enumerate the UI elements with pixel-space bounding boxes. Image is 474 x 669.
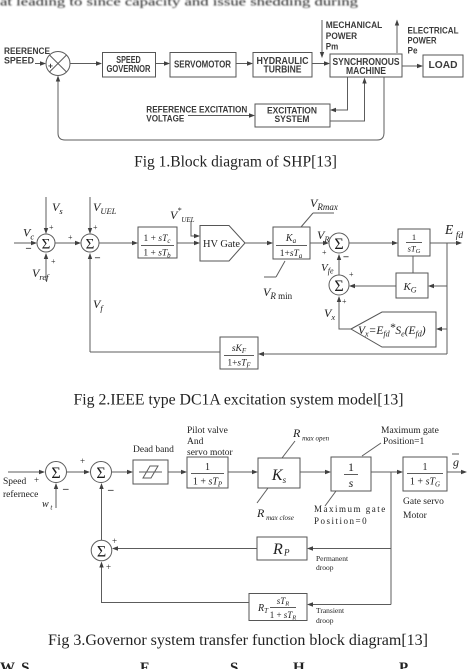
svg-text:1 + sTc: 1 + sTc: [144, 234, 172, 245]
svg-text:Fig 3.Governor system transfer: Fig 3.Governor system transfer function …: [48, 632, 428, 649]
svg-text:1: 1: [412, 232, 416, 242]
limit mark Rmax close: [257, 488, 268, 503]
summing junction S2c: [329, 233, 350, 263]
box RP permanent droop: [257, 537, 307, 560]
svg-text:Gate servo: Gate servo: [403, 497, 444, 507]
wire to Rt box: [307, 602, 391, 606]
box Ks: [258, 458, 300, 488]
svg-text:Σ: Σ: [334, 236, 343, 253]
svg-text:Transient: Transient: [316, 606, 345, 615]
wire mechanical power arrow: [320, 20, 324, 58]
wire integrator to gate servo: [371, 470, 403, 474]
svg-text:Pm: Pm: [326, 42, 339, 52]
label Vx: [324, 306, 335, 322]
wire reference excitation input: [188, 113, 255, 117]
box HYDRAULIC TURBINE: [253, 53, 312, 78]
wire gate servo output: [447, 470, 467, 474]
HV gate: [200, 226, 245, 262]
summing junction S3c: [91, 540, 112, 572]
svg-text:R max open: R max open: [292, 426, 330, 443]
svg-text:SERVOMOTOR: SERVOMOTOR: [174, 60, 232, 71]
label Vfe: [321, 262, 334, 276]
box KG: [396, 273, 428, 298]
svg-text:Maximum gate: Maximum gate: [381, 426, 439, 436]
wire Vref input: [44, 253, 56, 281]
svg-text:VUEL: VUEL: [93, 200, 117, 216]
svg-text:at leading to since capacity a: at leading to since capacity and issue s…: [0, 0, 358, 9]
wire S2b to lead-lag: [99, 241, 138, 245]
svg-text:Vc: Vc: [23, 226, 34, 242]
svg-text:+: +: [48, 61, 53, 71]
wire Vx up into S2d: [337, 296, 351, 329]
caption Fig 1: [134, 154, 337, 171]
svg-text:Motor: Motor: [403, 511, 428, 521]
svg-text:+: +: [80, 456, 85, 466]
wire to RP box: [307, 546, 391, 550]
svg-text:+: +: [93, 223, 98, 232]
wire S2a to S2b: [55, 233, 81, 245]
label Vs: [52, 200, 63, 216]
svg-text:droop: droop: [316, 563, 334, 572]
wire S3b to dead band: [112, 470, 133, 474]
svg-text:POWER: POWER: [326, 31, 358, 41]
summing junction S3b: [91, 462, 115, 497]
svg-text:Vs: Vs: [52, 200, 63, 216]
wire KG to S2d: [349, 270, 396, 288]
svg-text:Fig 2.IEEE type DC1A excitatio: Fig 2.IEEE type DC1A excitation system m…: [74, 392, 404, 409]
svg-text:Pilot valve: Pilot valve: [187, 426, 228, 436]
box SYNCHRONOUS MACHINE: [330, 54, 402, 77]
wire Efd to saturation block: [436, 327, 447, 331]
VRmax limit mark: [301, 213, 334, 227]
limit mark max gate open: [362, 443, 381, 456]
svg-text:R max close: R max close: [256, 506, 294, 522]
box dead band: [133, 460, 168, 484]
wire HV gate to Ka: [245, 241, 273, 245]
summing junction S1: [46, 52, 70, 76]
box SPEED GOVERNOR: [103, 53, 156, 78]
label VRmin: [263, 285, 293, 301]
wire Vs input: [44, 197, 54, 234]
svg-text:ELECTRICAL: ELECTRICAL: [408, 26, 459, 36]
truncated bottom text line: [0, 660, 408, 669]
wire droop feedback vertical: [390, 472, 392, 605]
label Vref: [32, 266, 50, 282]
wire S1 to speed governor: [70, 61, 102, 65]
wire dead band to pilot valve: [168, 470, 187, 474]
wire electrical power arrow: [395, 20, 399, 54]
box integrator 1/s: [331, 457, 371, 491]
svg-text:+: +: [322, 248, 327, 257]
svg-text:+: +: [106, 562, 111, 572]
label Rmax close: [256, 506, 294, 522]
wire pilot valve to Ks: [228, 470, 258, 474]
label Gate servo Motor: [403, 497, 444, 521]
box Rt transient droop: [249, 594, 307, 622]
wire reference speed input: [35, 61, 46, 65]
wire Efd feedback vertical: [446, 243, 448, 354]
wire Efd output: [430, 241, 462, 245]
box SERVOMOTOR: [170, 53, 236, 78]
svg-text:TURBINE: TURBINE: [264, 65, 302, 76]
svg-text:Vf: Vf: [93, 297, 104, 313]
label Maximum gate Position=1: [381, 426, 439, 447]
box EXCITATION SYSTEM: [255, 104, 330, 127]
label Permanent droop: [316, 554, 349, 572]
svg-text:Σ: Σ: [51, 465, 60, 482]
wire RP to S3c: [112, 536, 257, 551]
svg-text:+: +: [342, 297, 347, 306]
svg-text:s: s: [349, 476, 354, 490]
label Vc: [23, 226, 34, 242]
wire S2d to S2c: [337, 254, 341, 275]
svg-text:LOAD: LOAD: [429, 60, 458, 71]
svg-text:1: 1: [423, 462, 428, 473]
svg-text:refernece: refernece: [3, 489, 38, 500]
wire Ka to S2c with VR label: [310, 228, 330, 257]
label REFERENCE EXCITATION VOLTAGE: [146, 104, 247, 123]
svg-text:MECHANICAL: MECHANICAL: [326, 20, 383, 30]
label VUEL: [93, 200, 117, 216]
wire Efd to KG: [428, 284, 447, 288]
wire excitation system to machine: [330, 78, 367, 122]
svg-text:SYSTEM: SYSTEM: [275, 114, 310, 124]
svg-text:–: –: [343, 252, 350, 263]
wire machine to load: [402, 64, 423, 68]
wire wt input: [54, 483, 58, 508]
label VRmax: [310, 196, 338, 212]
wire VUEL input: [88, 197, 98, 234]
svg-text:And: And: [187, 437, 204, 447]
svg-text:1: 1: [205, 462, 210, 473]
wire Rt to S3c: [99, 562, 249, 603]
wire turbine to machine: [312, 61, 330, 65]
label wt: [42, 499, 53, 512]
svg-text:+: +: [51, 257, 56, 266]
svg-text:Σ: Σ: [42, 237, 51, 253]
svg-text:Position=0: Position=0: [314, 516, 368, 526]
label Rmax open: [292, 426, 330, 443]
svg-text:Vref: Vref: [32, 266, 50, 282]
wire servomotor to turbine: [236, 61, 253, 65]
svg-text:+: +: [349, 270, 354, 279]
box pilot valve 1/(1+sTP): [187, 457, 228, 489]
label Transient droop: [316, 606, 345, 625]
svg-text:GOVERNOR: GOVERNOR: [107, 64, 152, 75]
label MECHANICAL POWER Pm: [326, 20, 383, 51]
svg-text:–: –: [94, 253, 101, 264]
saturation polygon Vx=Efd*Se(Efd): [351, 312, 436, 347]
svg-text:w t: w t: [42, 499, 53, 512]
svg-text:SPEED: SPEED: [4, 56, 34, 67]
svg-text:Dead band: Dead band: [133, 445, 174, 455]
wire S2c to 1/sTG: [349, 241, 398, 245]
caption Fig 3: [48, 632, 428, 649]
VRmin limit mark: [264, 261, 285, 277]
svg-text:Σ: Σ: [97, 544, 106, 561]
wire S3a to S3b: [67, 456, 90, 474]
wire Vc input: [14, 241, 37, 254]
svg-text:POWER: POWER: [408, 36, 437, 46]
svg-text:Σ: Σ: [334, 278, 343, 295]
svg-text:MACHINE: MACHINE: [346, 66, 386, 77]
wire droop feedback up into S3b: [99, 483, 103, 540]
svg-text:Σ: Σ: [96, 465, 105, 482]
svg-text:–: –: [62, 483, 69, 495]
svg-text:VR: VR: [317, 228, 330, 244]
label Speed refernece: [3, 477, 38, 500]
limit mark Rmax open: [282, 441, 295, 458]
limit mark max gate close: [325, 491, 336, 506]
svg-text:R: R: [272, 541, 283, 558]
svg-text:VRmax: VRmax: [310, 196, 338, 212]
label Dead band: [133, 445, 174, 455]
wire V*UEL into HV gate: [191, 221, 200, 238]
wire Vf feedback up into S2b: [88, 253, 92, 352]
svg-text:+: +: [112, 536, 117, 546]
svg-text:1 + sTb: 1 + sTb: [143, 249, 171, 260]
wire machine feedback to excitation system: [330, 77, 348, 112]
box Ka/(1+sTa): [273, 227, 310, 260]
box LOAD: [423, 55, 463, 77]
box 1/sTG: [398, 229, 430, 256]
label REERENCE SPEED: [4, 46, 50, 67]
wire speed feedback loop: [56, 76, 384, 141]
wire lead-lag to HV gate: [177, 241, 200, 245]
label g bar output: [452, 454, 459, 469]
svg-text:Fig 1.Block diagram of SHP[13]: Fig 1.Block diagram of SHP[13]: [134, 154, 337, 171]
svg-text:Permanent: Permanent: [316, 554, 349, 563]
box gate servo 1/(1+sTG): [403, 457, 447, 491]
label Vf: [93, 297, 104, 313]
svg-text:Efd: Efd: [444, 222, 463, 241]
label Pilot valve And servo motor: [187, 426, 233, 458]
svg-text:VR min: VR min: [263, 285, 293, 301]
wire Efd to sKF box: [258, 352, 447, 356]
svg-text:Vx: Vx: [324, 306, 335, 322]
svg-text:HV Gate: HV Gate: [203, 239, 240, 250]
svg-text:g: g: [453, 455, 459, 469]
svg-text:Position=1: Position=1: [383, 437, 425, 447]
svg-text:droop: droop: [316, 616, 334, 625]
svg-text:W. SFSHP: W. SFSHP: [0, 660, 408, 669]
svg-text:Speed: Speed: [3, 477, 26, 487]
caption Fig 2: [74, 392, 404, 409]
svg-text:VOLTAGE: VOLTAGE: [146, 114, 184, 124]
wire sKF output to Vf: [90, 351, 220, 353]
summing junction S2d: [329, 275, 349, 306]
wire speed reference input: [8, 470, 45, 485]
summing junction S3a: [46, 462, 70, 496]
label Maximum gate Position=0: [314, 504, 387, 526]
svg-text:–: –: [25, 243, 32, 254]
wire 1/sTG to KG connector: [412, 256, 414, 273]
label ELECTRICAL POWER Pe: [408, 26, 459, 56]
svg-text:+: +: [34, 475, 39, 485]
svg-text:+: +: [49, 223, 54, 232]
svg-text:Vfe: Vfe: [321, 262, 334, 276]
truncated top text line: [0, 0, 358, 9]
wire Ks to integrator: [300, 470, 331, 474]
wire governor to servomotor: [156, 61, 171, 65]
label Efd: [444, 222, 463, 241]
summing junction S2a: [37, 234, 55, 253]
label V*UEL: [170, 206, 195, 224]
svg-text:Σ: Σ: [86, 237, 95, 253]
summing junction S2b: [81, 234, 101, 264]
svg-text:1: 1: [348, 460, 354, 474]
svg-text:–: –: [107, 484, 114, 496]
svg-text:Pe: Pe: [408, 46, 418, 56]
box sKF/(1+sTF): [220, 337, 258, 370]
box lead-lag 1+sTc/1+sTb: [138, 227, 177, 260]
svg-text:P: P: [283, 548, 290, 558]
svg-text:+: +: [68, 233, 73, 242]
